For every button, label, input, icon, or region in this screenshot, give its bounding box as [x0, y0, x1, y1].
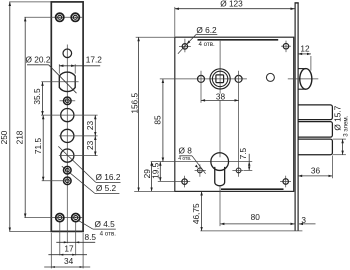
dim line 23 upper	[94, 115, 96, 136]
bottom dim extension lines	[50, 233, 52, 269]
dim line 34	[44, 266, 90, 268]
deadbolt pin 1	[298, 105, 332, 120]
dim 15.7 extension lines	[333, 138, 346, 140]
svg-text:85: 85	[153, 115, 163, 125]
svg-text:23: 23	[85, 140, 95, 150]
small hole below top screws	[63, 49, 72, 58]
label D5.2 with leader	[62, 166, 95, 193]
label D4.5 with leader	[79, 221, 93, 229]
cylinder axis extension down	[219, 186, 221, 226]
dim line 17.2	[59, 65, 75, 67]
dim line 3 (faceplate thickness)	[299, 223, 316, 225]
centerline of faceplate	[66, 45, 68, 244]
body hole top-right crosshair	[281, 41, 291, 53]
euro cylinder circle	[211, 153, 229, 171]
dim line 85	[162, 79, 164, 162]
svg-text:17: 17	[64, 244, 74, 254]
screw hole bottom-left	[56, 214, 64, 222]
follower square spindle hole	[216, 75, 224, 83]
handle hole left extension down	[200, 71, 202, 103]
handle hole right	[235, 75, 242, 82]
latch centerline	[288, 78, 319, 80]
svg-text:34: 34	[64, 256, 74, 266]
follower vertical centerline	[219, 41, 221, 94]
dim line 250	[9, 2, 11, 232]
screw A horizontal centerline	[60, 100, 76, 102]
latch bolt ellipse	[300, 69, 312, 90]
svg-text:4 отв.: 4 отв.	[198, 41, 215, 48]
dim line 7.5	[248, 162, 250, 171]
svg-text:3: 3	[301, 215, 306, 225]
dim line 8.5	[56, 241, 95, 243]
svg-text:36: 36	[311, 165, 321, 175]
body hole bottom-left crosshair	[158, 176, 190, 188]
dim line 36	[298, 175, 332, 177]
fixing hole left centerlines	[195, 169, 206, 171]
cylinder horizontal centerline	[151, 161, 253, 163]
svg-text:38: 38	[216, 92, 226, 102]
svg-text:23: 23	[85, 121, 95, 131]
screw hole bottom-right	[72, 214, 80, 222]
lock hole 1 centerline / extension	[41, 114, 98, 116]
small plain hole right of follower	[266, 73, 274, 81]
lock hole 1	[61, 109, 74, 122]
svg-text:250: 250	[0, 130, 9, 144]
svg-text:Ø 15.7: Ø 15.7	[333, 105, 343, 130]
svg-text:19.5: 19.5	[150, 162, 160, 179]
dim line 46.75	[201, 191, 203, 231]
euro cylinder stem	[215, 167, 225, 186]
dim line 71.5	[42, 115, 44, 181]
screw hole B	[64, 166, 72, 174]
dim line 29	[151, 162, 153, 192]
deadbolt pin 3	[298, 139, 332, 155]
svg-text:Ø 8: Ø 8	[179, 145, 193, 155]
svg-text:Ø 6.2: Ø 6.2	[196, 25, 217, 35]
handle hole right long centerline down	[238, 71, 240, 177]
latch bolt body top/bottom edges	[298, 68, 306, 70]
dim 12 extension	[310, 56, 312, 71]
screw hole C	[64, 177, 72, 185]
dim line 123	[175, 8, 295, 10]
body hole top-left crosshair	[179, 39, 191, 53]
dim 46.75 bottom extension	[200, 230, 302, 232]
dim line 35.5	[42, 82, 44, 115]
internal mechanism plate bottom edge	[221, 188, 284, 190]
dim 156.5 extension lines	[136, 36, 175, 38]
top screw-hole row centerline	[24, 16, 83, 18]
lock body outline	[175, 37, 294, 191]
svg-text:4 отв.: 4 отв.	[100, 231, 117, 238]
cylinder vertical centerline	[219, 100, 221, 157]
internal mechanism plate top edge	[198, 39, 279, 41]
dim line 38	[201, 99, 239, 101]
dim line 7.5 upper stub	[248, 154, 250, 162]
svg-text:46,75: 46,75	[191, 203, 201, 224]
svg-text:Ø 16.2: Ø 16.2	[96, 172, 121, 182]
dim line 19.5	[159, 162, 161, 182]
svg-text:4 отв.: 4 отв.	[178, 156, 191, 162]
body hole bottom-right crosshair	[280, 176, 291, 188]
dim line 156.5	[138, 37, 140, 191]
lock hole 2 centerline / extension	[59, 135, 98, 137]
screw hole mid (above lock holes)	[64, 97, 72, 105]
cylinder fixing hole left	[198, 168, 203, 173]
screw hole top-right	[71, 13, 79, 21]
svg-text:17.2: 17.2	[86, 55, 103, 65]
svg-text:Ø 5.2: Ø 5.2	[96, 183, 117, 193]
deadbolt pin 2	[298, 122, 332, 138]
svg-text:80: 80	[251, 212, 261, 222]
dim 250 extension lines	[9, 1, 50, 3]
dim line 12	[298, 53, 311, 55]
lock hole 3 centerline / extension	[59, 155, 98, 157]
fixing hole right centerline	[232, 169, 243, 171]
double-D spindle hole (20.2 x 17.2)	[59, 72, 75, 92]
double-D horizontal centerline / extension for 35.5	[41, 81, 78, 83]
svg-text:12: 12	[300, 44, 310, 54]
svg-text:35.5: 35.5	[32, 88, 42, 105]
svg-text:156.5: 156.5	[130, 93, 140, 114]
svg-text:3 элем.: 3 элем.	[342, 115, 349, 136]
follower inner circle	[212, 71, 227, 86]
svg-text:71.5: 71.5	[33, 138, 43, 155]
label D16.2 with leader	[58, 146, 96, 182]
dim 17.2 extension lines	[58, 64, 60, 73]
screw hole top-left	[56, 13, 64, 21]
faceplate front view outline	[51, 2, 83, 232]
main horizontal centerline	[160, 78, 247, 80]
svg-text:218: 218	[15, 130, 25, 144]
dim 7.5 extension	[244, 169, 252, 171]
bottom screw-hole row centerline	[24, 217, 83, 219]
faceplate side view bar	[294, 3, 296, 231]
dim line 17	[48, 254, 87, 256]
cylinder fixing hole right	[236, 168, 241, 173]
handle hole left	[198, 75, 205, 82]
dim line 80	[220, 223, 294, 225]
lock hole 3	[61, 149, 74, 162]
svg-text:Ø 123: Ø 123	[220, 0, 243, 9]
dim line 23 lower	[94, 136, 96, 156]
follower outer circle	[210, 69, 230, 89]
svg-text:Ø 20.2: Ø 20.2	[26, 55, 51, 65]
svg-text:7.5: 7.5	[238, 147, 248, 159]
svg-text:8.5: 8.5	[85, 232, 97, 242]
dim 123 extension	[174, 7, 176, 37]
lock hole 2	[61, 129, 74, 142]
dim line 218	[24, 17, 26, 217]
svg-text:Ø 4.5: Ø 4.5	[94, 219, 115, 229]
dim 36 extension	[331, 156, 333, 179]
screw C extension line for 71.5	[42, 180, 72, 182]
dim line 15.7	[342, 139, 344, 155]
